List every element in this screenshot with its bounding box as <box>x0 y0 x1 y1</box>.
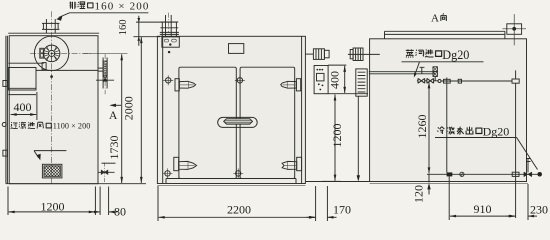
svg-text:910: 910 <box>474 202 492 216</box>
svg-text:400: 400 <box>14 100 32 114</box>
condensate label <box>435 125 538 170</box>
svg-text:Dg20: Dg20 <box>442 48 469 62</box>
target mark upper-left <box>163 75 173 85</box>
label paishikou 160x200 <box>56 1 149 21</box>
label guolü jinfengkou 1100x200 <box>11 122 91 131</box>
steam header ladder <box>356 69 367 96</box>
dim 230 <box>506 203 548 217</box>
left door <box>179 67 236 178</box>
drop pipes <box>447 70 516 218</box>
heater box <box>8 68 36 91</box>
door slab left edge <box>6 36 8 184</box>
steam valve line <box>417 78 519 85</box>
svg-text:2000: 2000 <box>122 96 136 120</box>
svg-text:160: 160 <box>118 19 129 35</box>
motor fitting right top <box>305 49 329 60</box>
dim 80 bottom <box>91 187 126 219</box>
svg-text:80: 80 <box>114 205 126 219</box>
drain valve bottom right <box>98 163 116 184</box>
dim 1260 <box>415 82 429 173</box>
dim 120 <box>411 174 430 203</box>
flange pair hatched <box>433 67 437 81</box>
roof slab <box>385 31 505 39</box>
steam inlet label <box>402 48 484 78</box>
motor fitting left <box>348 48 380 61</box>
dim 400 <box>11 92 37 120</box>
steam pipe double line <box>369 72 435 74</box>
motor bracket left of rotor <box>40 48 44 58</box>
cabinet body <box>9 36 98 184</box>
cabinet outline <box>157 36 305 183</box>
small box below rotor <box>42 63 46 70</box>
dim 910 <box>449 177 528 221</box>
hinge lower left <box>174 157 197 170</box>
fan outer circle <box>34 36 68 70</box>
control panel right <box>314 66 328 94</box>
ground extension between views <box>306 181 370 183</box>
dim 170 <box>307 186 352 221</box>
target mark lower-center <box>233 168 243 178</box>
A view arrow <box>109 104 121 122</box>
dim 160 chimney <box>118 16 177 46</box>
svg-text:230: 230 <box>530 203 548 217</box>
control box top left <box>162 37 179 53</box>
heater box top line <box>8 62 44 64</box>
svg-text:1200: 1200 <box>41 199 65 213</box>
hinge tab lower <box>3 150 8 156</box>
air filter crosshatched <box>42 164 62 178</box>
compartment floor <box>36 69 98 71</box>
dim 1200 bottom <box>8 187 95 216</box>
steam pipe column (side) <box>96 54 114 94</box>
target mark lower-left <box>163 168 173 178</box>
T vent <box>420 67 425 74</box>
hinge upper left <box>175 79 196 91</box>
fan center line horizontal <box>30 52 92 54</box>
svg-text:120: 120 <box>411 185 425 203</box>
center line <box>51 11 53 183</box>
handle knob side <box>2 123 6 127</box>
dim 2200 <box>158 186 316 221</box>
target mark upper-center <box>235 75 245 85</box>
box <box>370 39 527 182</box>
lifting lug mark <box>503 14 527 45</box>
dim 400 right <box>327 65 368 94</box>
svg-text:1260: 1260 <box>415 115 429 139</box>
nameplate <box>229 44 244 54</box>
svg-text:2200: 2200 <box>227 203 251 217</box>
label 过滤进风口1100x200 leader <box>34 151 66 158</box>
roof line <box>8 32 99 34</box>
right door <box>240 67 295 178</box>
svg-text:Dg20: Dg20 <box>483 125 510 139</box>
dim 2000 vertical <box>122 37 142 183</box>
svg-text:160 × 200: 160 × 200 <box>95 1 150 13</box>
svg-text:A: A <box>109 110 118 122</box>
chimney <box>160 13 179 37</box>
node dot below fan <box>50 75 53 78</box>
fan rotor <box>43 45 60 62</box>
condensate pipe <box>427 158 542 177</box>
hinge upper right <box>281 79 301 91</box>
dim 1730 vertical <box>84 53 128 183</box>
dim 1200 right <box>322 94 344 181</box>
svg-text:1100 × 200: 1100 × 200 <box>53 122 91 131</box>
hinge tab upper <box>3 81 8 87</box>
header drop to ground <box>357 96 360 181</box>
svg-text:170: 170 <box>333 203 351 217</box>
svg-text:1200: 1200 <box>330 124 344 148</box>
inner frame lines <box>163 36 302 183</box>
ground line <box>6 183 146 185</box>
plinth <box>166 179 296 184</box>
bottom double line <box>370 183 528 185</box>
hinge lower right <box>282 157 302 170</box>
svg-text:A: A <box>431 12 439 24</box>
svg-text:1730: 1730 <box>107 136 121 160</box>
svg-text:400: 400 <box>327 71 341 89</box>
exhaust chimney <box>42 19 59 33</box>
handle oval <box>218 117 258 127</box>
